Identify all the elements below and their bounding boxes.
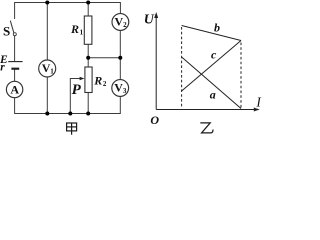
label jia (circuit figure label): [67, 123, 77, 135]
svg-text:P: P: [72, 82, 82, 98]
node top-left junction: [45, 1, 49, 5]
voltmeter V2: [112, 14, 129, 31]
svg-text:U: U: [144, 12, 155, 27]
svg-text:2: 2: [103, 80, 107, 88]
dashed guide line left: [181, 27, 183, 108]
resistor R1: [70, 16, 92, 44]
curve c: [182, 41, 241, 92]
wire bottom rail: [15, 96, 121, 113]
svg-text:c: c: [211, 47, 217, 61]
svg-text:R: R: [70, 22, 79, 36]
wire battery to ammeter: [14, 70, 16, 82]
node mid-left junction: [86, 56, 90, 60]
voltmeter V3: [112, 80, 129, 97]
graph U axis: [144, 12, 158, 110]
svg-text:1: 1: [80, 28, 84, 36]
wire left rail: switch to battery: [14, 36, 16, 61]
wiper arrow P: [72, 77, 85, 98]
wire wiper P to bottom rail: [70, 79, 83, 114]
svg-text:a: a: [210, 87, 216, 101]
svg-text:A: A: [10, 82, 19, 96]
wire V2 to node to V3: [119, 30, 121, 80]
dashed guide line right: [240, 43, 242, 108]
battery E r: [0, 54, 23, 73]
svg-text:R: R: [93, 74, 102, 88]
svg-text:3: 3: [123, 87, 127, 95]
wire R2 bottom: [87, 93, 89, 114]
svg-text:S: S: [3, 23, 10, 38]
wire V1 branch bottom: [46, 77, 48, 114]
node top-right junction: [86, 1, 90, 5]
svg-text:b: b: [214, 20, 220, 34]
curve b: [182, 20, 241, 40]
node bottom wiper junction: [68, 112, 72, 116]
wire V1 branch top: [46, 3, 48, 61]
wire middle horizontal node to node: [88, 57, 120, 59]
svg-text:1: 1: [50, 67, 54, 75]
curve a: [182, 57, 241, 109]
wire top rail: [15, 3, 121, 20]
label yi (graph figure label): [200, 123, 213, 133]
wire R1 to node: [87, 44, 89, 67]
wire R1 branch top: [87, 3, 89, 17]
resistor R2 (potentiometer body): [85, 67, 107, 93]
ammeter A: [6, 81, 22, 97]
svg-text:O: O: [150, 113, 159, 127]
svg-text:2: 2: [123, 21, 127, 29]
node bottom R2 junction: [86, 112, 90, 116]
switch S: [3, 21, 16, 39]
voltmeter V1: [39, 60, 56, 77]
node bottom V1 junction: [45, 112, 49, 116]
node mid-right junction: [118, 56, 122, 60]
graph I axis: [150, 95, 262, 128]
svg-text:r: r: [0, 62, 5, 74]
